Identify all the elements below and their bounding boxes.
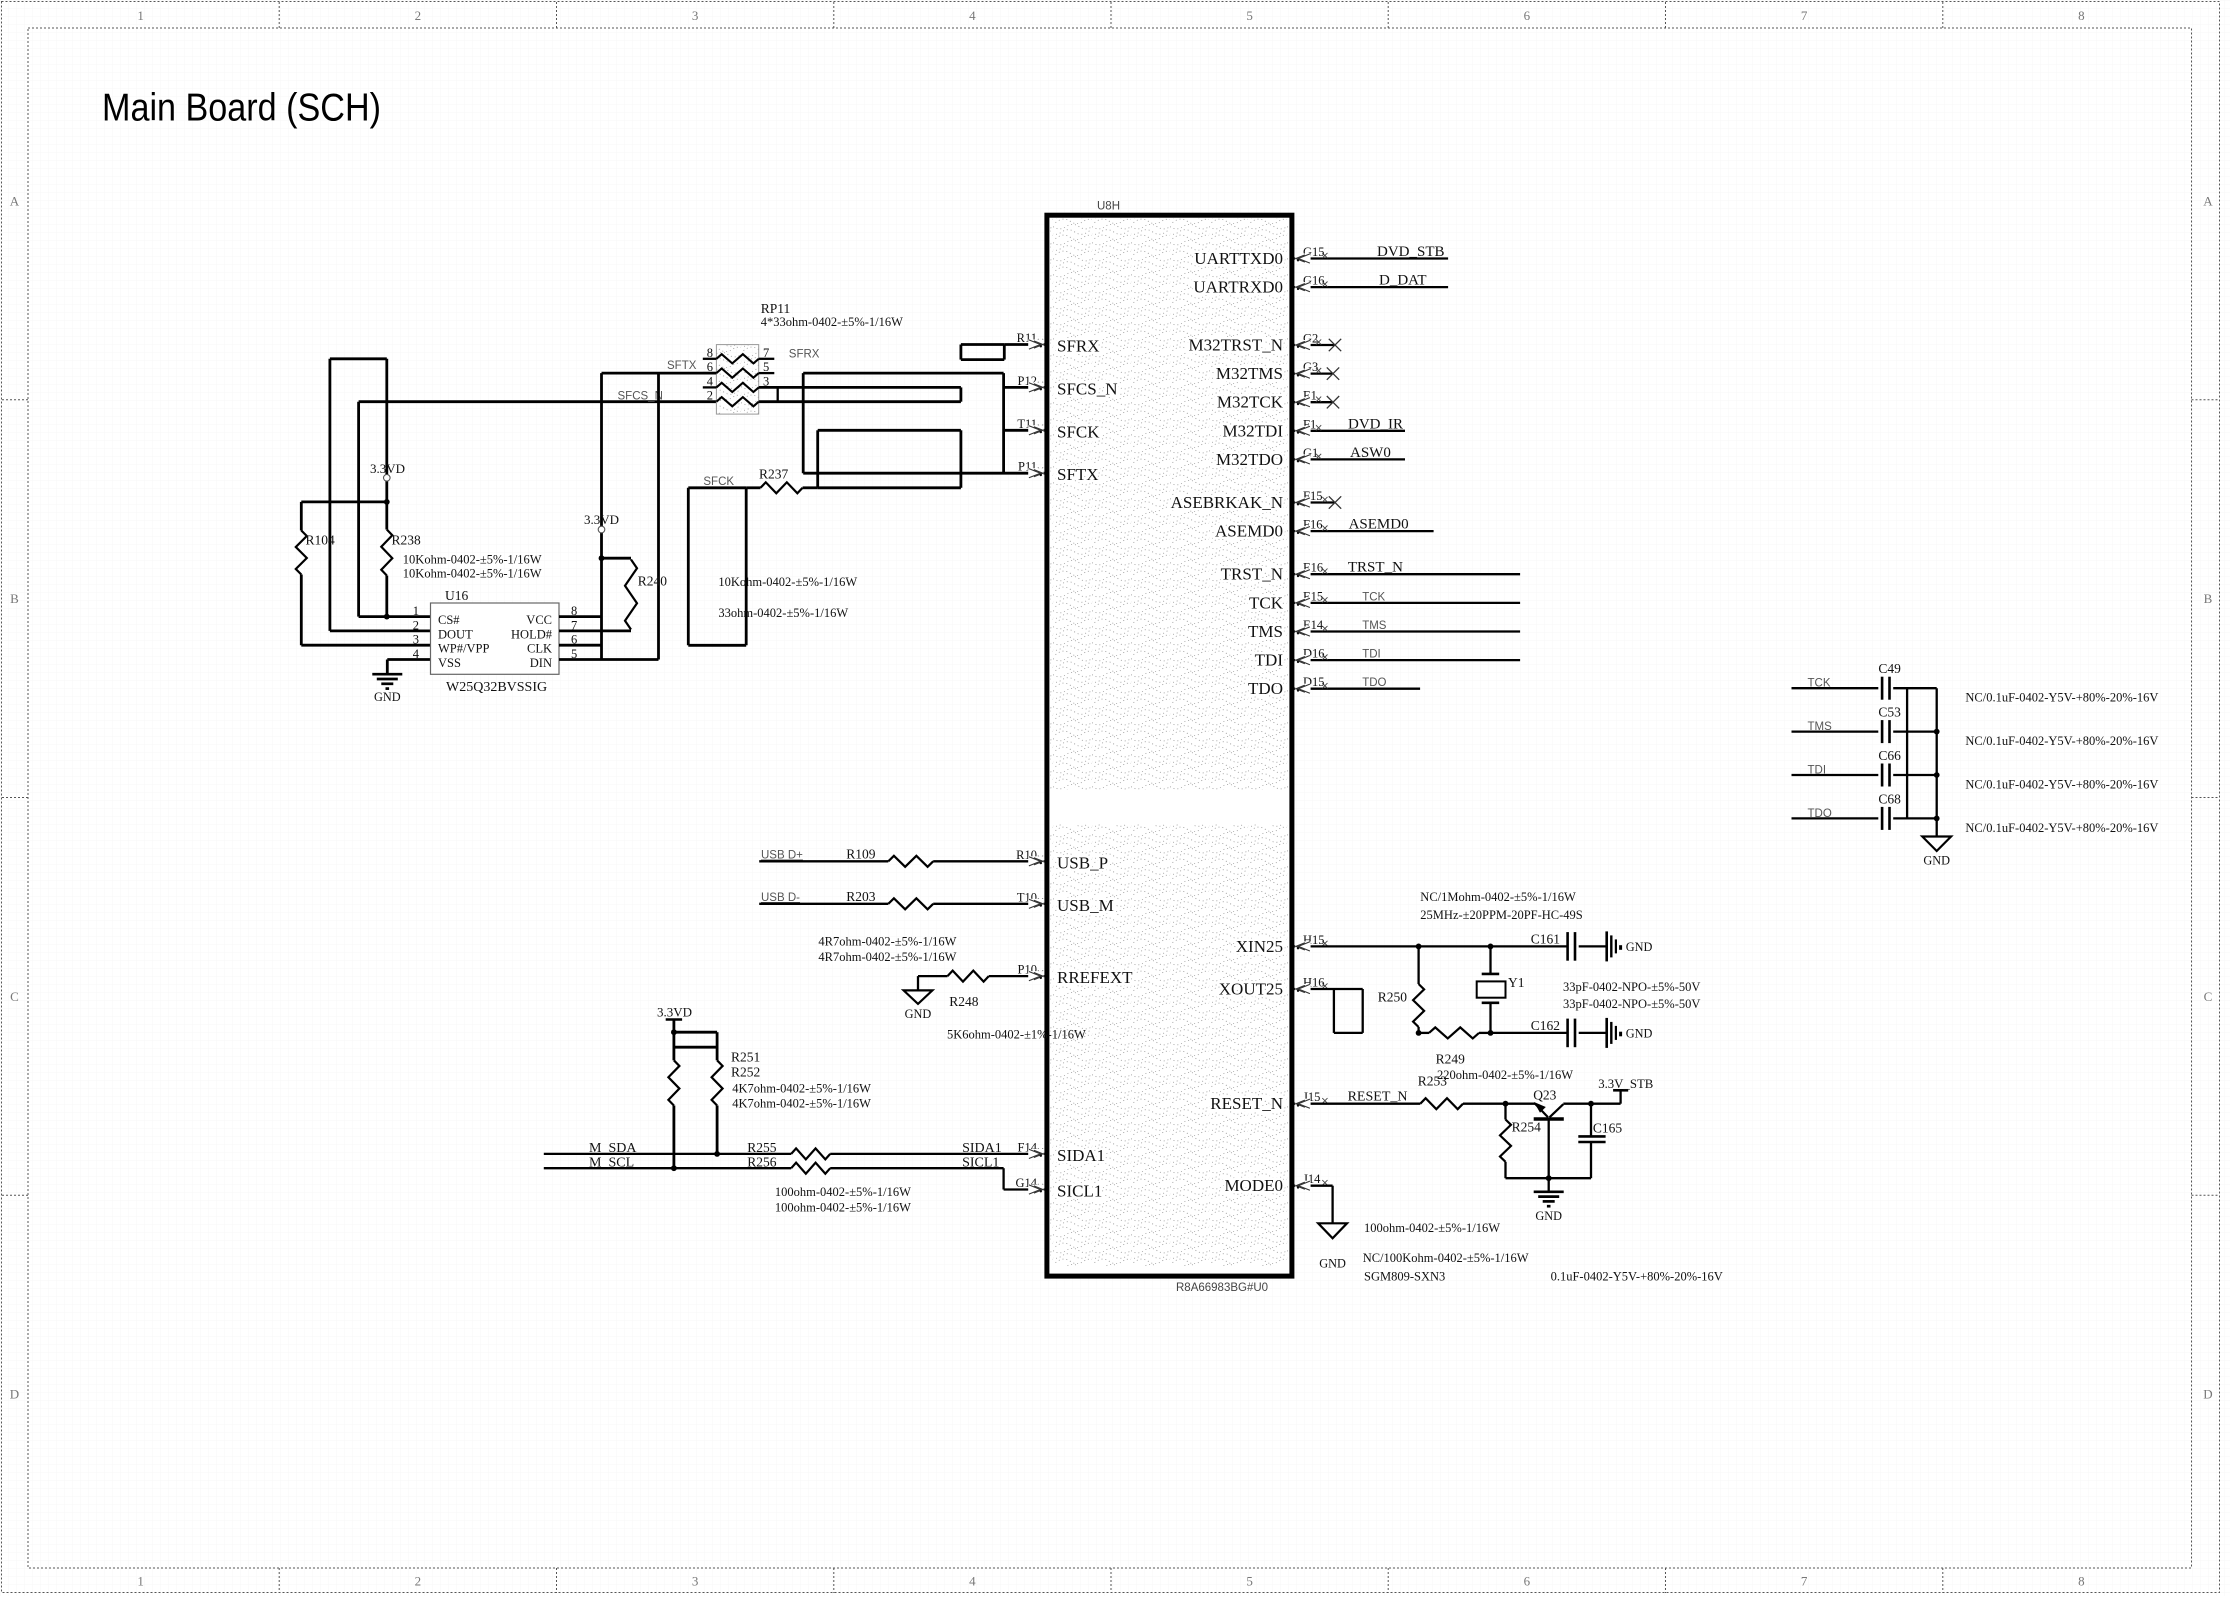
capacitor C165 [1590, 1104, 1592, 1137]
svg-text:ASEMD0: ASEMD0 [1215, 522, 1283, 541]
svg-text:GND: GND [1626, 940, 1653, 954]
wire: top horizontal (DOUT loop top) [330, 357, 387, 360]
wire: right connector of SFCS pair [960, 387, 963, 401]
wire [1893, 774, 1937, 776]
svg-text:3.3VD: 3.3VD [370, 461, 405, 476]
wire: WP pin3 [301, 644, 430, 647]
svg-text:TDO: TDO [1248, 679, 1283, 698]
svg-text:7: 7 [1801, 8, 1808, 23]
svg-text:SIDA1: SIDA1 [1057, 1146, 1105, 1165]
wire: SFRX pin R11 [1004, 343, 1044, 346]
svg-text:4K7ohm-0402-±5%-1/16W: 4K7ohm-0402-±5%-1/16W [732, 1082, 871, 1096]
RP11 resistor row 2 [716, 369, 758, 378]
svg-text:SFCK: SFCK [1057, 422, 1100, 441]
svg-text:ASEBRKAK_N: ASEBRKAK_N [1171, 493, 1283, 512]
svg-text:R253: R253 [1418, 1074, 1448, 1089]
wire: 3.3VD vertical (R238 rail) [385, 359, 388, 530]
svg-text:CLK: CLK [527, 642, 552, 656]
svg-text:GND: GND [1535, 1209, 1562, 1223]
resistor R104 [296, 531, 307, 575]
wire [1893, 817, 1937, 819]
svg-text:4R7ohm-0402-±5%-1/16W: 4R7ohm-0402-±5%-1/16W [818, 935, 956, 949]
wire: outer loop left [802, 373, 805, 473]
wire: DOUT pin2 [330, 630, 431, 633]
wire [1579, 945, 1607, 947]
svg-text:GND: GND [905, 1007, 932, 1021]
svg-text:SFCK: SFCK [703, 476, 734, 488]
svg-text:XIN25: XIN25 [1236, 937, 1283, 956]
wire [385, 576, 388, 617]
wire: DIN pin5 [559, 658, 659, 661]
wire: SFCK rect right [745, 488, 748, 646]
svg-text:GND: GND [374, 690, 401, 704]
junction [384, 499, 390, 505]
wire [1294, 573, 1520, 575]
svg-text:6: 6 [1524, 8, 1531, 23]
wire: SFCS_N pin P12 [1004, 386, 1045, 389]
svg-text:2: 2 [413, 618, 419, 632]
svg-text:R251: R251 [731, 1050, 760, 1065]
no-connect X [1329, 339, 1341, 351]
resistor R250 [1417, 946, 1419, 984]
junction [599, 555, 605, 561]
resistor R237 [746, 486, 760, 489]
ground (rail style) [1605, 1018, 1608, 1048]
wire: SFCK rect left [687, 488, 690, 646]
svg-text:C66: C66 [1878, 748, 1901, 763]
svg-text:C53: C53 [1878, 705, 1901, 720]
wire: R240 top lead [602, 557, 632, 560]
svg-text:220ohm-0402-±5%-1/16W: 220ohm-0402-±5%-1/16W [1437, 1068, 1573, 1082]
svg-text:ASW0: ASW0 [1350, 445, 1391, 461]
svg-text:U16: U16 [445, 588, 468, 603]
ground (rail style) [1605, 931, 1608, 961]
resistor R238 [381, 530, 392, 576]
junction [384, 614, 390, 620]
svg-text:R255: R255 [747, 1140, 777, 1155]
svg-text:C68: C68 [1878, 791, 1901, 806]
svg-text:RESET_N: RESET_N [1348, 1090, 1408, 1105]
resistor R248 [948, 971, 989, 982]
svg-text:Q23: Q23 [1533, 1088, 1556, 1103]
wire: rail crossbars [674, 1031, 717, 1034]
svg-text:A: A [10, 193, 20, 208]
svg-text:GND: GND [1626, 1026, 1653, 1040]
pin arrow glyphs (top layer) [1295, 254, 1310, 264]
svg-text:R240: R240 [638, 574, 668, 589]
wire MODE0 [1294, 1185, 1332, 1187]
wire: SFTX top horizontal [602, 372, 717, 375]
wire: SFCK rect bottom [688, 644, 746, 647]
svg-text:SFTX: SFTX [667, 360, 697, 372]
svg-text:SFRX: SFRX [789, 349, 820, 361]
svg-text:TCK: TCK [1249, 593, 1284, 612]
svg-text:TRST_N: TRST_N [1348, 560, 1403, 576]
svg-text:5: 5 [1246, 1574, 1253, 1589]
wire [830, 1167, 1003, 1169]
svg-text:10Kohm-0402-±5%-1/16W: 10Kohm-0402-±5%-1/16W [718, 575, 857, 589]
svg-text:R248: R248 [949, 994, 979, 1009]
svg-text:C49: C49 [1878, 661, 1901, 676]
RP11 resistor row 3 [716, 383, 758, 392]
power 3.3V_STB [1619, 1090, 1621, 1103]
svg-text:10Kohm-0402-±5%-1/16W: 10Kohm-0402-±5%-1/16W [403, 566, 542, 580]
svg-text:SIDA1: SIDA1 [962, 1141, 1002, 1156]
wire [1294, 372, 1332, 374]
resistor R255 [791, 1148, 830, 1159]
svg-text:4: 4 [969, 8, 976, 23]
svg-text:2: 2 [415, 8, 422, 23]
svg-text:1: 1 [137, 8, 144, 23]
svg-text:3.3VD: 3.3VD [584, 512, 619, 527]
svg-text:UARTRXD0: UARTRXD0 [1193, 278, 1283, 297]
svg-text:NC/1Mohm-0402-±5%-1/16W: NC/1Mohm-0402-±5%-1/16W [1420, 890, 1576, 904]
svg-text:R8A66983BG#U0: R8A66983BG#U0 [1176, 1282, 1268, 1294]
svg-text:2: 2 [415, 1574, 422, 1589]
svg-text:U8H: U8H [1097, 201, 1120, 213]
svg-text:RREFEXT: RREFEXT [1057, 968, 1133, 987]
svg-text:NC/0.1uF-0402-Y5V-+80%-20%-16V: NC/0.1uF-0402-Y5V-+80%-20%-16V [1965, 778, 2158, 792]
svg-text:6: 6 [707, 360, 713, 374]
svg-text:USB_M: USB_M [1057, 896, 1114, 915]
svg-text:WP#/VPP: WP#/VPP [438, 642, 489, 656]
column ticks top/bottom [278, 2, 280, 28]
no-connect X [1327, 367, 1339, 379]
svg-text:TMS: TMS [1248, 622, 1283, 641]
svg-text:DOUT: DOUT [438, 627, 473, 641]
svg-text:2: 2 [707, 389, 713, 403]
wire: cap bank GND rail [1936, 688, 1938, 836]
svg-text:TDI: TDI [1255, 651, 1284, 670]
wire [933, 860, 1044, 862]
wire [933, 903, 1044, 905]
ground (triangle) [904, 990, 933, 1004]
wire [1792, 817, 1879, 819]
svg-text:RP11: RP11 [761, 301, 791, 316]
wire [1294, 344, 1334, 346]
wire: SFCS upper (row3 to joint) [759, 386, 961, 389]
svg-text:XOUT25: XOUT25 [1219, 980, 1283, 999]
wire [386, 660, 389, 675]
wire [1294, 630, 1520, 632]
wire: VCC pin8 [559, 615, 602, 618]
svg-text:M32TRST_N: M32TRST_N [1189, 336, 1283, 355]
svg-text:7: 7 [1801, 1574, 1808, 1589]
svg-text:GND: GND [1923, 854, 1950, 868]
wire [918, 975, 948, 977]
svg-text:M32TDO: M32TDO [1216, 450, 1283, 469]
svg-text:TRST_N: TRST_N [1221, 565, 1283, 584]
svg-text:R249: R249 [1436, 1052, 1466, 1067]
svg-text:3: 3 [692, 1574, 699, 1589]
wire [1792, 730, 1879, 732]
svg-text:5: 5 [1246, 8, 1253, 23]
resistor R203 [888, 898, 933, 909]
svg-text:33ohm-0402-±5%-1/16W: 33ohm-0402-±5%-1/16W [718, 606, 848, 620]
wire: inner loop rect [816, 430, 819, 488]
svg-text:DVD_IR: DVD_IR [1348, 416, 1403, 432]
wire [1294, 659, 1520, 661]
wire: CLK pin6 [559, 644, 602, 647]
svg-text:ASEMD0: ASEMD0 [1349, 517, 1409, 533]
wire: VSS pin4 [387, 658, 430, 661]
svg-text:DVD_STB: DVD_STB [1377, 244, 1445, 260]
svg-text:NC/0.1uF-0402-Y5V-+80%-20%-16V: NC/0.1uF-0402-Y5V-+80%-20%-16V [1965, 734, 2158, 748]
wire: SFTX pin P11 [803, 472, 1044, 475]
wire [1893, 730, 1937, 732]
resistor R251 [668, 1060, 679, 1105]
svg-text:TDO: TDO [1362, 677, 1386, 689]
svg-text:4R7ohm-0402-±5%-1/16W: 4R7ohm-0402-±5%-1/16W [818, 950, 956, 964]
svg-text:DIN: DIN [530, 656, 552, 670]
wire [1792, 687, 1879, 689]
svg-text:SGM809-SXN3: SGM809-SXN3 [1364, 1270, 1445, 1284]
svg-text:25MHz-±20PPM-20PF-HC-49S: 25MHz-±20PPM-20PF-HC-49S [1420, 908, 1582, 922]
wire: vertical to DOUT [328, 359, 331, 631]
svg-text:0.1uF-0402-Y5V-+80%-20%-16V: 0.1uF-0402-Y5V-+80%-20%-16V [1551, 1270, 1723, 1284]
svg-text:C162: C162 [1531, 1018, 1560, 1033]
resistor R240 [625, 560, 637, 630]
wire: SFTX left vertical (3.3VD rail) [600, 373, 603, 659]
svg-text:TCK: TCK [1362, 591, 1385, 603]
RP11 right stubs rows 1,2 [759, 358, 775, 360]
svg-text:M32TMS: M32TMS [1216, 364, 1283, 383]
svg-text:6: 6 [1524, 1574, 1531, 1589]
wire [1294, 501, 1334, 503]
wire: HOLD pin7 to R240 [559, 630, 631, 633]
svg-text:C: C [2204, 989, 2213, 1004]
svg-text:R250: R250 [1378, 990, 1408, 1005]
wire [716, 1032, 719, 1060]
IC U16 box [431, 603, 560, 674]
svg-text:NC/0.1uF-0402-Y5V-+80%-20%-16V: NC/0.1uF-0402-Y5V-+80%-20%-16V [1965, 691, 2158, 705]
svg-text:R252: R252 [731, 1065, 760, 1080]
resistor R256 [791, 1163, 830, 1174]
wire [830, 1153, 1044, 1155]
svg-text:SICL1: SICL1 [1057, 1182, 1102, 1201]
wire: RP11 jog [777, 387, 779, 401]
svg-text:SFCS_N: SFCS_N [618, 391, 663, 403]
svg-text:100ohm-0402-±5%-1/16W: 100ohm-0402-±5%-1/16W [775, 1200, 911, 1214]
svg-text:R237: R237 [759, 467, 789, 482]
svg-text:SICL1: SICL1 [962, 1156, 999, 1171]
svg-text:3: 3 [692, 8, 699, 23]
svg-text:M32TCK: M32TCK [1217, 393, 1284, 412]
wire: pin column vertical [1002, 373, 1005, 473]
RP11 resistor row 1 [716, 354, 758, 363]
svg-text:SFTX: SFTX [1057, 465, 1099, 484]
svg-text:4: 4 [707, 374, 714, 388]
svg-text:100ohm-0402-±5%-1/16W: 100ohm-0402-±5%-1/16W [775, 1185, 911, 1199]
wire [1294, 458, 1405, 460]
resistor R254 [1504, 1104, 1506, 1120]
wire [1294, 401, 1332, 403]
resistor network RP11 [716, 345, 758, 415]
svg-text:M32TDI: M32TDI [1223, 421, 1284, 440]
no-connect X [1327, 396, 1339, 408]
ground (triangle) [1318, 1223, 1347, 1238]
svg-text:C165: C165 [1593, 1121, 1623, 1136]
wire: SFCK rect top [688, 486, 746, 489]
wire: collector down [1548, 1119, 1550, 1178]
wire: SFCS lower (row4 continuation) [759, 400, 961, 403]
resistor R253 [1420, 1098, 1463, 1109]
svg-text:R256: R256 [747, 1155, 777, 1170]
resistor R249 [1419, 1032, 1429, 1034]
wire [759, 903, 888, 905]
crystal Y1 [1489, 946, 1491, 974]
wire [1294, 430, 1405, 432]
svg-text:NC/100Kohm-0402-±5%-1/16W: NC/100Kohm-0402-±5%-1/16W [1363, 1251, 1529, 1265]
svg-text:R104: R104 [306, 533, 336, 548]
wire: SFRX loop rect [961, 343, 1004, 346]
resistor R109 [888, 856, 933, 867]
svg-text:VSS: VSS [438, 656, 461, 670]
svg-text:R203: R203 [846, 889, 876, 904]
svg-text:4: 4 [969, 1574, 976, 1589]
svg-text:USB D-: USB D- [761, 892, 800, 904]
wire [300, 575, 303, 646]
wire XOUT25 + loop [1294, 988, 1362, 990]
svg-text:GND: GND [1319, 1257, 1346, 1271]
svg-text:C: C [10, 989, 19, 1004]
wire [1893, 687, 1937, 689]
svg-text:SFRX: SFRX [1057, 337, 1100, 356]
wire: CS pin1 [359, 615, 431, 618]
svg-text:10Kohm-0402-±5%-1/16W: 10Kohm-0402-±5%-1/16W [403, 552, 542, 566]
wire: 3.3VD horizontal [301, 500, 387, 503]
svg-text:MODE0: MODE0 [1224, 1176, 1283, 1195]
resistor R252 [712, 1060, 723, 1105]
svg-text:TMS: TMS [1362, 620, 1387, 632]
svg-text:R254: R254 [1512, 1120, 1542, 1135]
svg-text:USB D+: USB D+ [761, 850, 803, 862]
wire [1294, 286, 1448, 288]
svg-text:TDI: TDI [1362, 649, 1381, 661]
wire: emitter to 3.3V_STB [1563, 1103, 1620, 1105]
svg-text:1: 1 [413, 604, 419, 618]
wire XIN25 [1294, 945, 1567, 947]
ground [1548, 1178, 1550, 1192]
svg-text:D: D [2203, 1387, 2212, 1402]
svg-text:8: 8 [2078, 1574, 2085, 1589]
wire C162 row [1491, 1032, 1568, 1034]
svg-text:5K6ohm-0402-±1%-1/16W: 5K6ohm-0402-±1%-1/16W [947, 1028, 1086, 1042]
wire: 3.3VD rail R251 [673, 1020, 676, 1061]
no-connect X [1329, 496, 1341, 508]
wire: SFCS_N long horizontal [359, 400, 717, 403]
wire [1792, 774, 1879, 776]
svg-text:D: D [10, 1387, 19, 1402]
svg-text:4*33ohm-0402-±5%-1/16W: 4*33ohm-0402-±5%-1/16W [761, 315, 903, 329]
svg-text:3.3VD: 3.3VD [657, 1005, 692, 1020]
svg-text:D_DAT: D_DAT [1379, 273, 1427, 289]
wire: SFTX right vertical [657, 373, 660, 659]
svg-text:100ohm-0402-±5%-1/16W: 100ohm-0402-±5%-1/16W [1364, 1221, 1500, 1235]
svg-text:R238: R238 [392, 533, 422, 548]
svg-text:8: 8 [707, 346, 713, 360]
svg-text:CS#: CS# [438, 613, 460, 627]
ground under U16 [372, 673, 402, 676]
svg-text:B: B [2204, 591, 2213, 606]
svg-text:3.3V_STB: 3.3V_STB [1598, 1077, 1653, 1091]
svg-text:8: 8 [2078, 8, 2085, 23]
svg-text:C161: C161 [1531, 932, 1560, 947]
svg-text:UARTTXD0: UARTTXD0 [1194, 249, 1283, 268]
svg-text:33pF-0402-NPO-±5%-50V: 33pF-0402-NPO-±5%-50V [1563, 997, 1700, 1011]
wire: bottom rail [1506, 1177, 1592, 1179]
wire [1294, 688, 1420, 690]
svg-text:3: 3 [413, 633, 419, 647]
wire [1463, 1103, 1535, 1105]
svg-text:B: B [10, 591, 19, 606]
svg-text:4K7ohm-0402-±5%-1/16W: 4K7ohm-0402-±5%-1/16W [732, 1097, 871, 1111]
wire: SFCK pin T11 [1004, 429, 1045, 432]
ground (triangle) [1922, 837, 1951, 852]
wire RESET_N [1294, 1103, 1420, 1105]
wire: outer loop top [803, 372, 1003, 375]
wire [1294, 530, 1433, 532]
svg-text:1: 1 [137, 1574, 144, 1589]
IC U8H body [1047, 215, 1292, 1276]
svg-text:33pF-0402-NPO-±5%-50V: 33pF-0402-NPO-±5%-50V [1563, 980, 1700, 994]
svg-text:RESET_N: RESET_N [1210, 1094, 1283, 1113]
svg-text:A: A [2203, 193, 2213, 208]
wire [1294, 602, 1520, 604]
svg-text:4: 4 [413, 647, 420, 661]
svg-text:SFCS_N: SFCS_N [1057, 379, 1117, 398]
svg-text:USB_P: USB_P [1057, 853, 1108, 872]
RP11 resistor row 4 [716, 397, 758, 406]
wire [759, 860, 888, 862]
wire: SFCS_N vertical [357, 402, 360, 617]
wire [673, 1106, 676, 1169]
svg-text:VCC: VCC [526, 613, 552, 627]
svg-text:W25Q32BVSSIG: W25Q32BVSSIG [446, 680, 547, 695]
wire [1294, 257, 1448, 259]
svg-text:Main Board (SCH): Main Board (SCH) [102, 87, 381, 130]
svg-text:Y1: Y1 [1508, 975, 1525, 990]
wire: cap bank vertical 1 [1906, 688, 1908, 818]
svg-text:NC/0.1uF-0402-Y5V-+80%-20%-16V: NC/0.1uF-0402-Y5V-+80%-20%-16V [1965, 821, 2158, 835]
wire RREFEXT [989, 975, 1045, 977]
row ticks left/right [2, 399, 28, 401]
wire [300, 502, 303, 531]
svg-text:R109: R109 [846, 847, 876, 862]
svg-text:HOLD#: HOLD# [511, 627, 553, 641]
